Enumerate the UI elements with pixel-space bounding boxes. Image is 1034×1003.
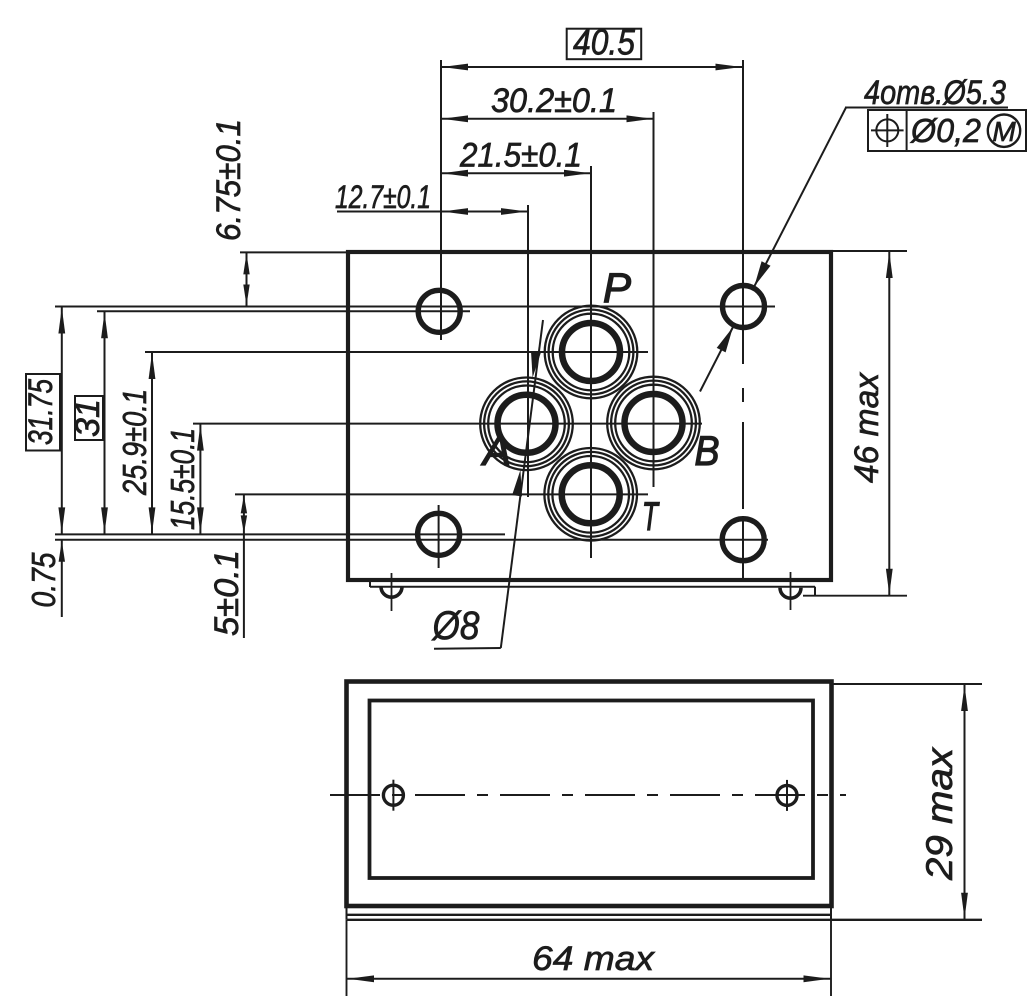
svg-text:A: A <box>480 427 511 474</box>
svg-text:5±0.1: 5±0.1 <box>208 550 246 636</box>
svg-text:25.9±0.1: 25.9±0.1 <box>116 389 153 496</box>
svg-text:T: T <box>642 495 660 539</box>
svg-text:29 max: 29 max <box>919 746 960 881</box>
svg-text:15.5±0.1: 15.5±0.1 <box>164 428 201 530</box>
svg-text:30.2±0.1: 30.2±0.1 <box>491 82 617 120</box>
svg-text:M: M <box>992 116 1016 147</box>
svg-text:B: B <box>695 427 720 474</box>
svg-text:31: 31 <box>69 399 107 437</box>
svg-text:0.75: 0.75 <box>25 552 62 608</box>
svg-text:Ø0,2: Ø0,2 <box>910 112 981 149</box>
svg-text:46 max: 46 max <box>848 372 886 483</box>
svg-text:40.5: 40.5 <box>573 22 636 63</box>
svg-text:Ø8: Ø8 <box>431 604 480 648</box>
svg-text:P: P <box>603 264 631 311</box>
svg-text:6.75±0.1: 6.75±0.1 <box>210 119 248 241</box>
svg-text:4отв.Ø5.3: 4отв.Ø5.3 <box>864 74 1006 112</box>
svg-text:31.75: 31.75 <box>22 379 60 445</box>
svg-text:12.7±0.1: 12.7±0.1 <box>335 179 431 215</box>
svg-text:64 max: 64 max <box>532 940 655 978</box>
svg-text:21.5±0.1: 21.5±0.1 <box>459 137 582 175</box>
